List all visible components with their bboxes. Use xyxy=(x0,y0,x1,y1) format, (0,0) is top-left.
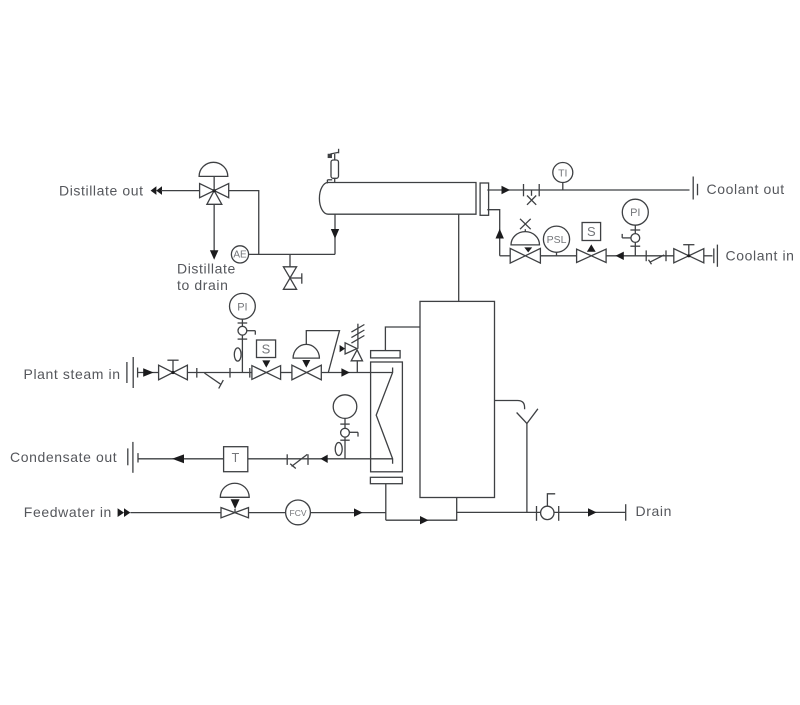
wire condensate right xyxy=(248,458,393,460)
arrowhead down (condenser outlet) xyxy=(331,229,339,239)
svg-text:AE: AE xyxy=(233,250,247,261)
condenser tube sheet xyxy=(480,183,489,215)
line start condensate xyxy=(127,448,129,465)
flange tick xyxy=(249,368,251,378)
svg-text:to drain: to drain xyxy=(177,277,229,293)
funnel (air gap) xyxy=(517,409,538,424)
wire valve down to drain xyxy=(213,204,215,251)
wire distillate out to valve xyxy=(161,190,200,192)
svg-text:Plant steam in: Plant steam in xyxy=(24,366,121,382)
wire to line end xyxy=(704,255,713,257)
separator column xyxy=(420,301,495,497)
arrowhead right (coolant out) xyxy=(502,186,511,194)
wire valve right then down xyxy=(229,191,259,255)
check valve (condensate) xyxy=(287,454,308,468)
svg-text:Coolant out: Coolant out xyxy=(707,181,785,197)
wire condenser left nozzle down xyxy=(334,214,336,254)
column overflow outlet xyxy=(495,401,525,410)
solenoid valve (steam) xyxy=(252,340,281,379)
wire condenser to column xyxy=(458,214,460,301)
line end coolant in xyxy=(713,248,715,263)
svg-text:T: T xyxy=(232,451,240,465)
wire steam to exchanger xyxy=(321,372,392,374)
instrument PSL xyxy=(543,226,569,256)
steam trap T xyxy=(224,447,248,472)
svg-text:TI: TI xyxy=(558,167,567,179)
svg-text:Distillate: Distillate xyxy=(177,261,236,277)
strainer (steam) xyxy=(204,373,223,389)
gate valve (steam) xyxy=(159,360,188,380)
arrowhead left (condensate mid) xyxy=(320,455,327,463)
condenser vessel xyxy=(319,182,476,214)
gate valve (coolant in) xyxy=(674,245,704,263)
relief valve with vent xyxy=(340,324,365,373)
arrowhead right (feedwater) xyxy=(354,508,363,516)
arrowhead right (steam in) xyxy=(143,368,153,376)
tube bundle chevron xyxy=(376,368,392,464)
sample valve below AE line xyxy=(283,254,301,289)
wire condensate left xyxy=(138,458,224,460)
check valve (coolant in) xyxy=(646,250,666,264)
wire coolant out xyxy=(487,189,689,191)
wire to FCV xyxy=(249,512,286,514)
svg-text:S: S xyxy=(262,342,271,357)
flange tick xyxy=(229,368,231,378)
instrument FCV xyxy=(286,500,311,525)
svg-text:Drain: Drain xyxy=(636,503,672,519)
arrowhead right xyxy=(341,368,349,376)
seal pot (drain) xyxy=(537,494,559,521)
svg-text:Coolant in: Coolant in xyxy=(726,247,795,263)
solenoid valve (coolant in) xyxy=(577,223,607,263)
wire drain line xyxy=(457,511,626,513)
heat exchanger top flange xyxy=(371,351,401,358)
line end drain xyxy=(625,504,627,521)
wire funnel to drain xyxy=(526,424,528,513)
arrowhead left (coolant in) xyxy=(615,252,623,260)
svg-text:Distillate out: Distillate out xyxy=(59,183,144,199)
svg-text:FCV: FCV xyxy=(290,508,307,518)
arrowhead right (drain) xyxy=(588,508,597,516)
arrowhead down (distillate to drain) xyxy=(210,250,219,260)
wire xyxy=(281,372,292,374)
arrowhead left (condensate) xyxy=(172,454,184,463)
instrument TI xyxy=(553,163,573,191)
level gauge on condenser xyxy=(327,149,339,184)
control valve (coolant in) xyxy=(510,219,540,263)
wire exchanger bottom to column xyxy=(386,498,457,521)
wire exchanger bottom stub xyxy=(385,484,387,521)
arrowhead double right (feedwater) xyxy=(118,508,131,517)
wire steam line mid xyxy=(187,372,252,374)
vent valve on coolant out xyxy=(524,184,540,205)
pressure gauge with seal and siphon (condensate) xyxy=(333,395,358,459)
diaphragm actuator (3-way valve) xyxy=(199,162,228,190)
feedwater control valve xyxy=(220,483,249,518)
wire coolant in xyxy=(606,255,674,257)
wire feedwater xyxy=(130,512,221,514)
3-way control valve body xyxy=(200,184,229,205)
svg-text:PI: PI xyxy=(237,301,247,313)
svg-text:Condensate out: Condensate out xyxy=(10,449,117,465)
instrument PI with seal and siphon (steam) xyxy=(230,293,256,372)
heat exchanger bottom flange xyxy=(370,477,402,483)
wire steam line xyxy=(138,372,159,374)
wire FCV to exchanger xyxy=(310,512,385,514)
svg-text:S: S xyxy=(587,224,596,239)
instrument PI with seal (coolant in) xyxy=(622,199,648,256)
svg-text:PSL: PSL xyxy=(547,234,567,246)
heat exchanger shell xyxy=(371,362,403,472)
flange tick xyxy=(196,368,198,378)
instrument AE xyxy=(231,246,248,263)
arrowhead up (to condenser) xyxy=(496,229,504,239)
line start plant steam xyxy=(126,362,128,383)
arrowhead right (to column) xyxy=(420,516,429,524)
svg-text:Feedwater in: Feedwater in xyxy=(24,504,112,520)
svg-text:PI: PI xyxy=(630,207,640,219)
wire AE to condenser nozzle xyxy=(249,253,335,255)
wire exchanger top to column xyxy=(385,327,420,351)
control valve (steam) xyxy=(292,331,340,380)
arrowhead double left (distillate out) xyxy=(151,186,162,195)
line end coolant out xyxy=(692,177,694,200)
wire between valves xyxy=(540,255,576,257)
wire condenser bottom to coolant valve xyxy=(487,210,499,256)
